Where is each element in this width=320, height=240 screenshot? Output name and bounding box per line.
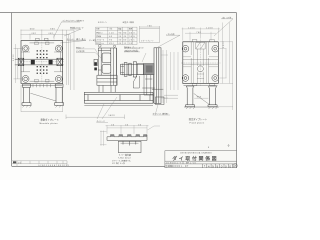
svg-text:２５: ２５ — [18, 161, 22, 164]
svg-text:４５０: ４５０ — [48, 32, 53, 35]
svg-text:Movable platen: Movable platen — [40, 122, 59, 125]
svg-text:１１００: １１００ — [222, 41, 225, 48]
svg-text:ダイハイト（最大・最小）: ダイハイト（最大・最小） — [67, 38, 87, 41]
svg-text:ＭＣ 取付 ４ヶ所: ＭＣ 取付 ４ヶ所 — [112, 162, 125, 165]
svg-text:６６０: ６６０ — [50, 28, 55, 31]
svg-text:ダイベース（基準面）: ダイベース（基準面） — [153, 113, 170, 116]
svg-text:DIE MOUNTING DIA. DRAWING: DIE MOUNTING DIA. DRAWING — [180, 152, 212, 155]
svg-text:ＡＣＢ１２３４５６７８９１０１１: ＡＣＢ１２３４５６７８９１０１１ — [38, 164, 69, 167]
svg-text:４５０: ４５０ — [31, 32, 36, 35]
svg-text:499000: 499000 — [208, 164, 234, 168]
svg-text:Ｆ: Ｆ — [203, 165, 205, 168]
svg-text:ノズル先端: ノズル先端 — [166, 33, 175, 36]
svg-text:ダイ取付面: ダイ取付面 — [76, 50, 85, 53]
svg-text:射出スリーブ: 射出スリーブ — [124, 46, 134, 49]
svg-text:６６０: ６６０ — [30, 28, 35, 31]
svg-text:押出ロッド: 押出ロッド — [76, 47, 85, 50]
svg-text:押出板ストローク: 押出板ストローク — [70, 27, 84, 30]
svg-text:１３２０: １３２０ — [12, 54, 15, 61]
svg-text:１１００: １１００ — [188, 27, 195, 30]
svg-text:３６００: ３６００ — [108, 114, 115, 117]
svg-text:T-Slot detail: T-Slot detail — [118, 157, 131, 160]
svg-text:５００トン: ５００トン — [98, 21, 108, 24]
svg-text:１１００: １１００ — [206, 27, 213, 30]
svg-text:ＤＣ８００ＣＬ−Ｔ: ＤＣ８００ＣＬ−Ｔ — [166, 162, 182, 165]
svg-text:ダイベース: ダイベース — [96, 120, 105, 123]
svg-text:７６０: ７６０ — [196, 31, 201, 34]
svg-text:（注）４ヶ所: （注）４ヶ所 — [221, 16, 231, 19]
svg-text:-5-: -5- — [227, 145, 230, 148]
svg-text:ノズルタッチ位置: ノズルタッチ位置 — [124, 50, 138, 53]
svg-text:Fixed platen: Fixed platen — [190, 121, 205, 124]
svg-text:ダイ取付関係図: ダイ取付関係図 — [172, 155, 218, 162]
